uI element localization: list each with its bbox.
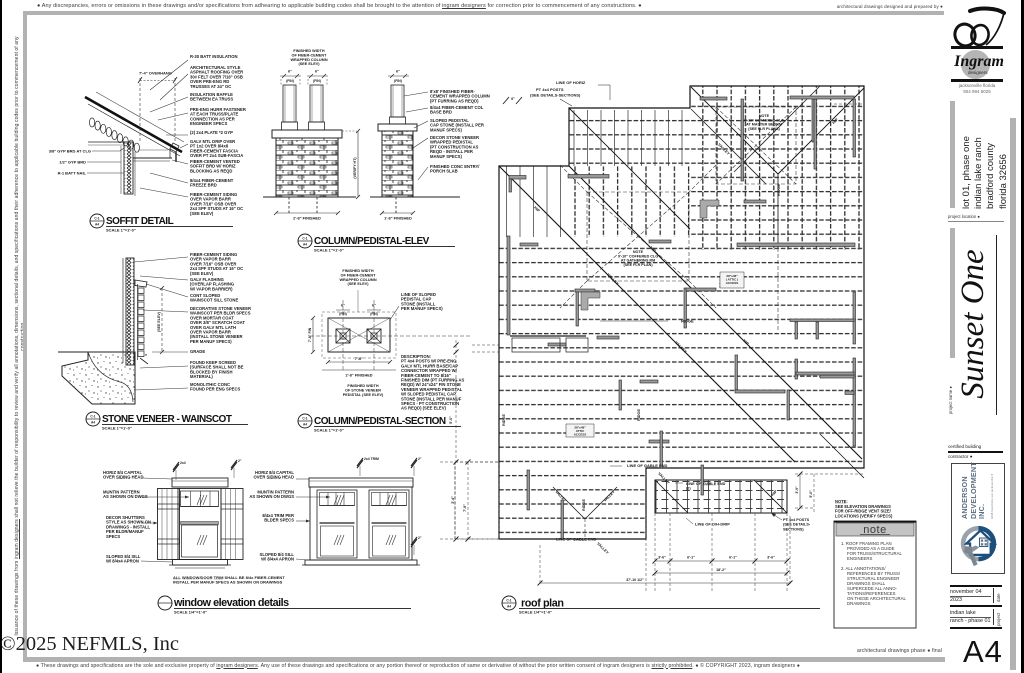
project location label — [948, 214, 998, 219]
svg-text:ARCHITECTURAL STYLEASPHALT ROO: ARCHITECTURAL STYLEASPHALT ROOFING OVER3… — [190, 65, 243, 89]
detail title: STONE VENEER - WAINSCOT — [86, 412, 100, 426]
svg-text:SCALE 1"=1'-0": SCALE 1"=1'-0" — [102, 426, 132, 431]
valley diagonal D1 — [499, 166, 795, 462]
truss field top-right (vertical+horizontal dashed grid) — [690, 86, 864, 250]
note box — [834, 521, 916, 628]
project name label (rotated) — [948, 362, 953, 414]
roof slope line — [85, 97, 182, 152]
svg-text:FINISHED WIDTHOF STONE VENEERP: FINISHED WIDTHOF STONE VENEERPEDISTAL (S… — [343, 384, 384, 397]
svg-text:C-1: C-1 — [302, 237, 307, 241]
roof plan drawing — [440, 80, 893, 592]
svg-text:3'-9": 3'-9" — [795, 486, 799, 494]
porch hip right — [754, 480, 787, 513]
svg-text:(FIN): (FIN) — [370, 312, 378, 316]
svg-text:8/4x4 TRIM PERBLDER SPECS: 8/4x4 TRIM PERBLDER SPECS — [262, 513, 294, 523]
leader lines — [150, 60, 188, 90]
overhang dimension — [139, 78, 141, 143]
window title — [158, 596, 172, 610]
svg-text:2'-8" FINISHED: 2'-8" FINISHED — [293, 216, 321, 221]
svg-text:G̲A̲B̲L̲E̲ END: G̲A̲B̲L̲E̲ END — [703, 482, 726, 486]
svg-text:6": 6" — [372, 304, 376, 308]
svg-text:FIBER-CEMENT SIDINGOVER VAPOR: FIBER-CEMENT SIDINGOVER VAPOR BARROVER 7… — [190, 192, 243, 216]
window labels leaders — [142, 478, 172, 479]
window 2 sill — [305, 560, 417, 565]
leaders — [134, 257, 188, 262]
svg-text:A4: A4 — [507, 605, 511, 609]
svg-text:6": 6" — [288, 70, 292, 74]
roof outline — [499, 86, 864, 539]
left margin note (rotated) — [14, 22, 26, 650]
svg-text:STONE VENEER - WAINSCOT: STONE VENEER - WAINSCOT — [102, 414, 232, 425]
svg-text:6'-1": 6'-1" — [729, 556, 737, 560]
A4 — [963, 634, 1007, 670]
svg-text:C-1: C-1 — [90, 415, 95, 419]
svg-text:RIDGE: RIDGE — [777, 184, 781, 196]
wall and beam markers — [509, 176, 526, 180]
svg-text:6": 6" — [341, 304, 345, 308]
right note leader — [390, 306, 399, 320]
svg-text:18'-2": 18'-2" — [716, 568, 726, 572]
svg-text:LINE OF G̲A̲B̲L̲E̲ END: LINE OF G̲A̲B̲L̲E̲ END — [556, 537, 597, 542]
svg-text:MUNTIN PATTERNAS SHOWN ON DWGS: MUNTIN PATTERNAS SHOWN ON DWGS — [249, 490, 294, 500]
top edge tick marks — [503, 97, 509, 104]
left black edge — [0, 0, 2, 673]
svg-text:GRADE: GRADE — [190, 349, 205, 354]
svg-text:DESCRIPTION:PT 4x4 POSTS W/ PR: DESCRIPTION:PT 4x4 POSTS W/ PRE-ENGGALV … — [401, 354, 465, 411]
svg-text:MUNTIN PATTERNAS SHOWN ON DWGS: MUNTIN PATTERNAS SHOWN ON DWGS — [103, 490, 148, 500]
porch hip left — [655, 480, 688, 513]
porch band — [655, 480, 787, 513]
corner dashed tie — [834, 103, 864, 105]
truss field top-middle strip lower (vertical dashed) — [569, 166, 690, 237]
date block — [950, 585, 1002, 587]
stone veneer wainscot drawing — [58, 257, 188, 404]
svg-text:SLOPED PEDISTALCAP STONE (INST: SLOPED PEDISTALCAP STONE (INSTALL PERMAN… — [430, 118, 484, 132]
ingram designers J monogram — [970, 9, 1004, 13]
svg-text:PRE-ENG HURR FASTENERAT EACH T: PRE-ENG HURR FASTENERAT EACH TRUSS/PLATE… — [190, 107, 246, 126]
svg-text:6": 6" — [396, 70, 400, 74]
room outline boxes — [512, 338, 560, 352]
top margin note — [37, 3, 737, 9]
ridge vertical at top-right apex — [777, 174, 779, 248]
verify-ht dim — [357, 131, 359, 197]
svg-text:SCALE 1"=1'-0": SCALE 1"=1'-0" — [314, 248, 344, 253]
svg-text:R-30 BATT INSULATION: R-30 BATT INSULATION — [190, 54, 238, 59]
svg-text:COLUMN/PEDISTAL-SECTION: COLUMN/PEDISTAL-SECTION — [314, 416, 446, 427]
svg-text:(SEE ELEV): (SEE ELEV) — [157, 311, 161, 332]
svg-text:RIDGE: RIDGE — [502, 414, 506, 426]
dim 2-8 finished — [276, 212, 338, 214]
svg-text:SCALE 1"=1'-0": SCALE 1"=1'-0" — [314, 428, 344, 433]
svg-text:MONOLITHIC CONCFOUND PER ENG S: MONOLITHIC CONCFOUND PER ENG SPECS — [190, 382, 240, 392]
ground line left — [263, 196, 356, 198]
svg-text:2": 2" — [418, 457, 422, 461]
svg-text:HORIZ 8/4 CAPITALOVER S̲I̲D̲I̲: HORIZ 8/4 CAPITALOVER S̲I̲D̲I̲N̲G̲ HEAD — [103, 470, 144, 480]
column/pedistal elevation drawing — [263, 49, 460, 221]
svg-text:A4: A4 — [303, 243, 307, 247]
posts — [336, 329, 350, 343]
svg-text:C-1: C-1 — [302, 417, 307, 421]
batt insulation scallops — [89, 118, 139, 152]
underline of sunset one — [996, 235, 997, 415]
svg-text:LINE OF O/H-DRIP: LINE OF O/H-DRIP — [695, 522, 730, 527]
svg-text:HORIZ 8/4 CAPITALOVER S̲I̲D̲I̲: HORIZ 8/4 CAPITALOVER S̲I̲D̲I̲N̲G̲ HEAD — [254, 470, 295, 480]
left pedestal — [276, 138, 338, 197]
svg-text:SCALE 1/4"=1'-0": SCALE 1/4"=1'-0" — [174, 610, 207, 615]
valley diagonal D2 — [569, 166, 862, 459]
svg-text:28"x48"( ATTIC )ACCESS: 28"x48"( ATTIC )ACCESS — [726, 274, 739, 285]
ceiling line — [88, 141, 130, 143]
svg-text:FIBER-CEMENT VENTEDSOFFIT BRD: FIBER-CEMENT VENTEDSOFFIT BRD W/ HORIZBL… — [190, 159, 240, 173]
svg-text:SLOPED 8/4 SILLW/ 8/4x4 APRON: SLOPED 8/4 SILLW/ 8/4x4 APRON — [106, 554, 141, 564]
svg-text:LINE OF SLOPEDPEDISTAL CAPSTON: LINE OF SLOPEDPEDISTAL CAPSTONE (INSTALL… — [401, 292, 443, 311]
frame: top bar — [23, 11, 944, 15]
svg-text:C-1: C-1 — [506, 599, 511, 603]
svg-text:×: × — [145, 352, 148, 357]
svg-text:(2) 2x4 PLATE *2 GYP: (2) 2x4 PLATE *2 GYP — [190, 130, 233, 135]
keep screed mark — [140, 358, 148, 364]
gray accent bar segment 1 — [950, 101, 955, 208]
fascia — [170, 143, 179, 152]
svg-text:R-1 BATT NAIL: R-1 BATT NAIL — [58, 171, 87, 176]
short valley D6 — [569, 108, 690, 229]
svg-text:2": 2" — [238, 459, 242, 463]
svg-text:7'-8" FIN: 7'-8" FIN — [308, 327, 312, 342]
frame: bottom bar — [23, 657, 945, 662]
svg-text:A̲L̲L̲ W̲I̲N̲D̲O̲W̲/D̲O̲O̲R̲ T: A̲L̲L̲ W̲I̲N̲D̲O̲W̲/D̲O̲O̲R̲ T̲R̲I̲M̲ SH… — [172, 575, 285, 585]
right pedestal — [382, 131, 413, 197]
svg-text:1'-8" FINISHED: 1'-8" FINISHED — [384, 216, 412, 221]
dashed centerlines — [310, 335, 470, 337]
truss field left-top (vertical solid) — [499, 166, 569, 237]
bottom dimension chains — [645, 513, 647, 592]
svg-text:2": 2" — [418, 536, 422, 540]
svg-text:(FIN): (FIN) — [313, 79, 321, 83]
roof plan title — [502, 596, 516, 610]
svg-text:37'-10 1/2": 37'-10 1/2" — [626, 578, 644, 582]
bottom-right corner hip — [820, 434, 864, 478]
frame: left bar — [23, 11, 27, 661]
svg-text:SCALE 1"=1'-0": SCALE 1"=1'-0" — [106, 228, 136, 233]
sill stone — [135, 280, 147, 287]
top-right valley D4a — [778, 88, 864, 174]
wall section — [124, 142, 133, 194]
svg-text:C-1: C-1 — [94, 217, 99, 221]
anderson box — [951, 463, 1005, 574]
right porch dims — [799, 474, 801, 508]
Ingram script — [950, 53, 1008, 71]
svg-text:6": 6" — [315, 70, 319, 74]
ingram J monogram — [952, 5, 1012, 55]
svg-text:(VERIFY HT): (VERIFY HT) — [353, 157, 357, 179]
svg-text:DECOR SHUTTERSSTYLE AS SHOWN O: DECOR SHUTTERSSTYLE AS SHOWN ONDRAWINGS … — [106, 515, 151, 539]
grade line — [58, 351, 122, 353]
stone veneer blocks — [138, 288, 144, 357]
top-right valley D3b — [691, 109, 766, 184]
svg-text:FOUND KEEP SCREED(SURFACE SHAL: FOUND KEEP SCREED(SURFACE SHALL NOT BEBL… — [190, 360, 244, 379]
svg-text:7'-9": 7'-9" — [463, 504, 467, 512]
soffit board — [133, 157, 172, 159]
dims — [312, 318, 314, 352]
svg-text:3'-6": 3'-6" — [767, 556, 775, 560]
svg-text:SCALE 1/4"=1'-0": SCALE 1/4"=1'-0" — [519, 610, 552, 615]
master bedrm coffered clg dashed box — [716, 107, 796, 184]
truss field left body (horizontal dashed) — [499, 237, 864, 539]
svg-text:FIBER-CEMENT SIDINGOVER VAPOR: FIBER-CEMENT SIDINGOVER VAPOR BARROVER 7… — [190, 252, 243, 276]
svg-text:DECOR STONE VENEERWRAPPED PEDI: DECOR STONE VENEERWRAPPED PEDISTAL(PT CO… — [430, 135, 479, 159]
svg-text:FINISHED WIDTHOF FIBER-CEMENTW: FINISHED WIDTHOF FIBER-CEMENTWRAPPED COL… — [290, 49, 327, 66]
svg-text:FINISHED CONC ENTRY/PORCH SLAB: FINISHED CONC ENTRY/PORCH SLAB — [430, 164, 480, 174]
svg-text:7'-6": 7'-6" — [355, 357, 363, 361]
window elevation details drawing — [141, 457, 422, 568]
svg-text:window elevation details: window elevation details — [173, 597, 289, 609]
svg-text:RIDGE: RIDGE — [637, 409, 641, 421]
certified building contractor — [948, 444, 1000, 449]
svg-text:3'-4": 3'-4" — [451, 496, 455, 504]
left columns — [283, 85, 296, 122]
svg-text:1/2" GYP BRD: 1/2" GYP BRD — [59, 160, 86, 165]
svg-text:FINISHED WIDTHOF FIBER-CEMENTW: FINISHED WIDTHOF FIBER-CEMENTWRAPPED COL… — [339, 269, 376, 286]
svg-text:(FIN): (FIN) — [394, 79, 402, 83]
svg-text:PT 4x4 POSTS: PT 4x4 POSTS — [536, 87, 564, 92]
svg-text:5'-0": 5'-0" — [809, 490, 813, 498]
see-elev dim — [161, 288, 163, 352]
svg-text:roof plan: roof plan — [521, 598, 564, 610]
svg-text:7'-4" OVERHANG: 7'-4" OVERHANG — [139, 71, 172, 76]
window 1 shutters — [158, 489, 180, 560]
Sunset One script (rotated) — [955, 231, 992, 417]
line under ingram — [951, 79, 1003, 82]
svg-text:GALV FLASHING(OVERLAP FLASHING: GALV FLASHING(OVERLAP FLASHINGW/ VAPOR B… — [190, 277, 234, 291]
top-right valley D3a — [691, 87, 778, 174]
svg-text:DECORATIVE STONE VENEERWAINSCO: DECORATIVE STONE VENEERWAINSCOT PER BLDR… — [190, 306, 251, 344]
trim tick marks — [173, 462, 179, 470]
bottom margin note — [36, 663, 916, 669]
footing — [62, 352, 135, 404]
lot text (rotated) — [961, 101, 1010, 209]
svg-text:3/8" GYP BRD AT CLG: 3/8" GYP BRD AT CLG — [49, 149, 91, 154]
top-right valley D4b — [734, 86, 820, 172]
window 2 — [309, 478, 413, 487]
column/pedistal section drawing — [308, 269, 470, 378]
left porch dims — [455, 462, 499, 539]
svg-text:8/4x4 FIBER-CEMENT COLBASE BRD: 8/4x4 FIBER-CEMENT COLBASE BRD — [430, 105, 484, 115]
svg-text:5'-6": 5'-6" — [449, 416, 453, 424]
gray circle — [961, 50, 990, 79]
svg-text:8'x8' FINISHED FIBER-CEMENT WR: 8'x8' FINISHED FIBER-CEMENT WRAPPED COLU… — [430, 89, 490, 103]
detail title: COLUMN/PEDISTAL-SECTION — [298, 414, 312, 428]
svg-text:SOFFIT DETAIL: SOFFIT DETAIL — [106, 216, 174, 227]
gable valley V left — [553, 487, 585, 519]
svg-text:COLUMN/PEDISTAL-ELEV: COLUMN/PEDISTAL-ELEV — [314, 236, 430, 247]
svg-text:GALV MTL DRIP OVERPT 1x2 OVER: GALV MTL DRIP OVERPT 1x2 OVER 8/4x8FIBER… — [190, 139, 243, 158]
svg-text:LINE OF G̲A̲B̲L̲E̲ END: LINE OF G̲A̲B̲L̲E̲ END — [627, 463, 668, 468]
detail title: SOFFIT DETAIL — [90, 214, 104, 228]
svg-text:2x4 TRIM: 2x4 TRIM — [364, 457, 379, 461]
gathering room coffered clg dashed box — [587, 192, 689, 281]
svg-text:A4: A4 — [91, 421, 95, 425]
ground line right — [370, 196, 460, 198]
svg-text:(FIN): (FIN) — [286, 79, 294, 83]
gray shade marks — [581, 292, 600, 310]
truss field top-middle strip upper (vertical solid + horiz dashed) — [569, 110, 690, 166]
wall studs — [126, 258, 134, 365]
svg-text:INSULATION BAFFLEBETWEEN EA TR: INSULATION BAFFLEBETWEEN EA TRUSS — [190, 92, 233, 102]
svg-text:A4: A4 — [95, 223, 99, 227]
svg-text:(FIN): (FIN) — [339, 312, 347, 316]
anderson logo — [957, 523, 1000, 568]
svg-text:2'-8" FINISHED: 2'-8" FINISHED — [346, 374, 373, 378]
svg-text:CONT SLOPEDWAINSCOT SILL STONE: CONT SLOPEDWAINSCOT SILL STONE — [190, 293, 238, 303]
soffit detail drawing — [49, 60, 188, 197]
window 1 sill — [173, 560, 228, 566]
svg-text:6'-1": 6'-1" — [687, 556, 695, 560]
svg-text:N̲O̲T̲E̲:SEE ELEVATION DRAWING: N̲O̲T̲E̲:SEE ELEVATION DRAWINGSFOR OFF-R… — [834, 499, 893, 518]
section plan rect — [328, 318, 390, 352]
line under monogram — [951, 46, 1003, 49]
gray accent bar segment 2 — [950, 228, 955, 358]
svg-text:VALLEY: VALLEY — [596, 542, 610, 556]
svg-text:3'-6": 3'-6" — [658, 556, 666, 560]
svg-text:A4: A4 — [303, 423, 307, 427]
svg-text:8/4x4 FIBER-CEMENTFREEZE BRD: 8/4x4 FIBER-CEMENTFREEZE BRD — [190, 178, 234, 188]
svg-text:(SEE DETAILS-SECTIONS): (SEE DETAILS-SECTIONS) — [530, 93, 581, 98]
svg-text:6": 6" — [511, 97, 515, 101]
svg-text:RIDGE: RIDGE — [681, 319, 694, 324]
svg-text:LINE OF HORIZ: LINE OF HORIZ — [556, 80, 586, 85]
svg-text:RIDGE: RIDGE — [582, 499, 586, 511]
right gray accent bar — [1010, 118, 1016, 670]
svg-text:2x4: 2x4 — [180, 461, 186, 465]
attic access label — [566, 424, 594, 437]
window 1 frame — [178, 489, 221, 560]
right black edge — [1021, 0, 1024, 673]
svg-text:SLOPED 8/4 SILLW/ 8/4x4 APRON: SLOPED 8/4 SILLW/ 8/4x4 APRON — [260, 552, 295, 562]
window 1 header — [172, 478, 228, 487]
detail title: COLUMN/PEDISTAL-ELEV — [298, 234, 312, 248]
